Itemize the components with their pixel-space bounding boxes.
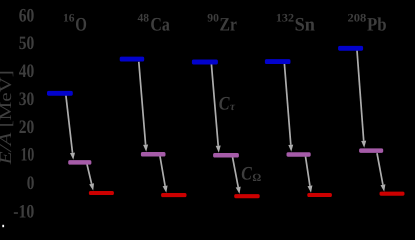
svg-text:Sn: Sn — [295, 14, 316, 35]
svg-text:τ: τ — [230, 101, 236, 113]
svg-text:0: 0 — [27, 173, 35, 194]
svg-text:50: 50 — [19, 33, 35, 54]
svg-text:C: C — [219, 93, 230, 114]
svg-text:Ca: Ca — [150, 14, 170, 35]
svg-text:O: O — [75, 15, 87, 36]
svg-text:Ω: Ω — [252, 172, 261, 184]
svg-text:90: 90 — [207, 12, 219, 24]
svg-text:40: 40 — [19, 61, 35, 82]
svg-text:Pb: Pb — [367, 14, 387, 35]
svg-text:C: C — [241, 163, 252, 184]
svg-text:48: 48 — [138, 12, 150, 24]
svg-text:60: 60 — [19, 6, 35, 27]
svg-text:E/A [MeV]: E/A [MeV] — [0, 70, 15, 165]
svg-text:10: 10 — [21, 145, 35, 166]
svg-text:208: 208 — [348, 12, 367, 24]
svg-text:132: 132 — [276, 12, 294, 24]
svg-text:16: 16 — [63, 12, 75, 24]
svg-text:30: 30 — [19, 89, 35, 110]
svg-text:Zr: Zr — [220, 14, 238, 35]
svg-text:-10: -10 — [13, 202, 34, 223]
svg-text:20: 20 — [19, 117, 35, 138]
